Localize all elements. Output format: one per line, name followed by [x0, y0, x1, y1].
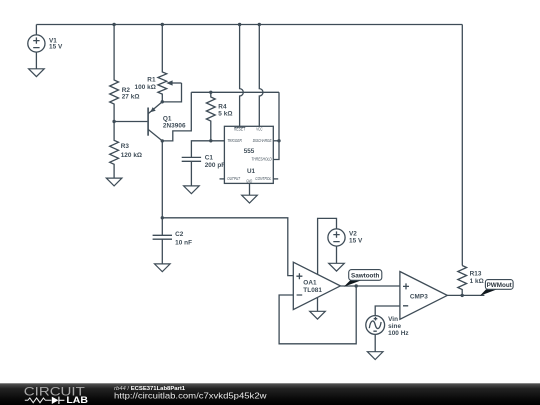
op-amp OA1 [293, 262, 340, 309]
svg-text:OA1: OA1 [303, 279, 317, 286]
node junction top rail / R2 [112, 23, 115, 26]
wire feedback loop [279, 286, 356, 344]
ground (Vin) [367, 352, 383, 360]
capacitor C2 [153, 218, 172, 264]
resistor R2 [110, 25, 119, 122]
svg-text:C1: C1 [205, 155, 214, 162]
svg-text:R3: R3 [121, 143, 130, 150]
capacitor C1 [182, 157, 201, 186]
node junction R4 top [209, 91, 212, 94]
svg-text:C2: C2 [175, 231, 184, 238]
svg-text:CMP3: CMP3 [410, 293, 428, 300]
wire right drop to R13 [461, 25, 463, 266]
svg-text:Sawtooth: Sawtooth [351, 272, 379, 279]
resistor R3 [110, 122, 119, 179]
svg-text:THRESHOLD: THRESHOLD [251, 157, 272, 162]
pin OUTPUT stub [220, 178, 225, 180]
wire collector down to C2 [161, 141, 163, 218]
ground (V2) [329, 263, 345, 271]
wire OA1 vminus stub [317, 298, 319, 312]
resistor R13 [458, 266, 467, 296]
node junction top rail / VCC [258, 23, 261, 26]
svg-text:CONTROL: CONTROL [255, 176, 271, 181]
svg-text:200 pF: 200 pF [205, 162, 226, 169]
transistor Q1 [148, 102, 162, 141]
pin label RESET [234, 127, 246, 132]
node junction base [112, 120, 115, 123]
wire top rail [36, 24, 462, 26]
node junction top rail / R1 [161, 23, 164, 26]
wire R4 top to threshold [191, 91, 279, 93]
wire reset drop with hop [240, 25, 244, 127]
pin CONTROL stub [273, 178, 278, 180]
wire OA1 output to CMP3 plus [340, 285, 400, 287]
ground (R3) [106, 178, 122, 186]
svg-text:OUTPUT: OUTPUT [227, 176, 241, 181]
svg-text:100 Hz: 100 Hz [388, 330, 409, 337]
ground (C2) [155, 264, 171, 272]
svg-text:15 V: 15 V [349, 237, 363, 244]
svg-text:TL081: TL081 [303, 287, 322, 294]
svg-text:5 kΩ: 5 kΩ [218, 111, 232, 118]
svg-text:2N3906: 2N3906 [163, 123, 186, 130]
svg-text:27 kΩ: 27 kΩ [122, 94, 140, 101]
svg-text:Q1: Q1 [163, 115, 172, 122]
svg-text:http://circuitlab.com/c7xvkd5p: http://circuitlab.com/c7xvkd5p45k2w [114, 392, 267, 401]
comparator CMP3 [400, 272, 447, 320]
svg-text:GND: GND [246, 179, 252, 184]
footer bar [0, 383, 540, 405]
node junction discharge [277, 139, 280, 142]
svg-text:R1: R1 [147, 77, 156, 84]
wire collector step up [162, 92, 191, 141]
svg-text:Vin: Vin [388, 316, 398, 323]
flag PWMout [480, 280, 513, 296]
node junction PWM [461, 294, 464, 297]
node junction sawtooth [355, 284, 358, 287]
voltage source V2 [328, 229, 345, 263]
wire discharge stub [273, 140, 279, 142]
svg-text:120 kΩ: 120 kΩ [121, 152, 142, 159]
svg-text:DISCHARGE: DISCHARGE [253, 138, 272, 143]
node junction emitter [161, 100, 164, 103]
svg-text:15 V: 15 V [49, 44, 63, 51]
svg-text:100 kΩ: 100 kΩ [135, 84, 156, 91]
wire CMP3 output [447, 294, 484, 296]
svg-text:TRIGGER: TRIGGER [227, 138, 242, 143]
ground (V1) [29, 69, 45, 77]
pin GND stub [249, 183, 251, 195]
ground (C1) [184, 186, 200, 194]
IC U1 555 box [224, 126, 273, 183]
node junction R4 bottom [209, 139, 212, 142]
svg-text:LAB: LAB [66, 394, 88, 405]
node junction C2 [161, 216, 164, 219]
wire discharge threshold drop [273, 92, 279, 159]
potentiometer R1 [158, 25, 182, 102]
svg-text:R4: R4 [218, 104, 227, 111]
wire V2 to OA1 vplus [318, 218, 337, 274]
ground (OA1) [310, 311, 326, 319]
svg-text:VCC: VCC [256, 127, 263, 132]
wire base [114, 121, 147, 123]
svg-text:1 kΩ: 1 kΩ [470, 278, 484, 285]
svg-text:10 nF: 10 nF [175, 240, 192, 247]
wire C2 to OA1 plus input [162, 218, 293, 276]
svg-text:R13: R13 [470, 271, 482, 278]
source Vin sine [366, 306, 400, 352]
resistor R4 [206, 92, 215, 141]
svg-text:sine: sine [388, 323, 401, 330]
wire trigger with C1 lead [191, 141, 224, 158]
ground (U1) [242, 195, 258, 203]
node junction collector [161, 139, 164, 142]
wire vcc drop with hop [259, 25, 263, 127]
node junction top rail / RESET [238, 23, 241, 26]
svg-text:PWMout: PWMout [487, 282, 513, 289]
flag Sawtooth [344, 270, 382, 287]
voltage source V1 [28, 25, 45, 69]
svg-text:555: 555 [244, 148, 255, 155]
svg-text:U1: U1 [247, 168, 256, 175]
